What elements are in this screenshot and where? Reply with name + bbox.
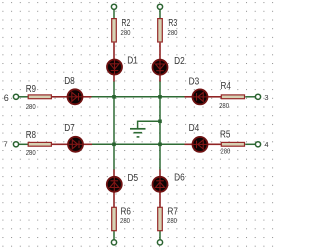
svg-text:6: 6 bbox=[4, 93, 9, 103]
svg-text:D6: D6 bbox=[174, 173, 185, 184]
svg-text:280: 280 bbox=[220, 148, 230, 155]
svg-text:280: 280 bbox=[120, 218, 130, 225]
svg-text:280: 280 bbox=[26, 104, 36, 111]
svg-text:D3: D3 bbox=[189, 77, 200, 88]
svg-text:R4: R4 bbox=[221, 81, 232, 92]
svg-text:280: 280 bbox=[219, 103, 229, 110]
svg-text:D7: D7 bbox=[64, 123, 75, 134]
svg-text:280: 280 bbox=[168, 30, 178, 37]
svg-text:R9: R9 bbox=[26, 84, 37, 95]
svg-text:280: 280 bbox=[121, 30, 131, 37]
svg-text:7: 7 bbox=[4, 140, 8, 149]
svg-text:D2: D2 bbox=[174, 56, 185, 67]
svg-text:R7: R7 bbox=[168, 206, 179, 217]
svg-text:280: 280 bbox=[167, 218, 177, 225]
svg-text:R8: R8 bbox=[26, 130, 37, 141]
svg-text:D8: D8 bbox=[64, 76, 75, 87]
svg-text:R3: R3 bbox=[168, 18, 177, 29]
svg-text:R2: R2 bbox=[122, 18, 131, 29]
svg-text:R5: R5 bbox=[220, 129, 231, 140]
svg-text:D4: D4 bbox=[189, 123, 200, 134]
svg-text:4: 4 bbox=[264, 140, 268, 149]
svg-text:D5: D5 bbox=[128, 173, 139, 184]
svg-text:R6: R6 bbox=[121, 206, 132, 217]
svg-text:280: 280 bbox=[26, 150, 36, 157]
svg-text:D1: D1 bbox=[127, 56, 138, 67]
svg-text:3: 3 bbox=[264, 93, 268, 102]
